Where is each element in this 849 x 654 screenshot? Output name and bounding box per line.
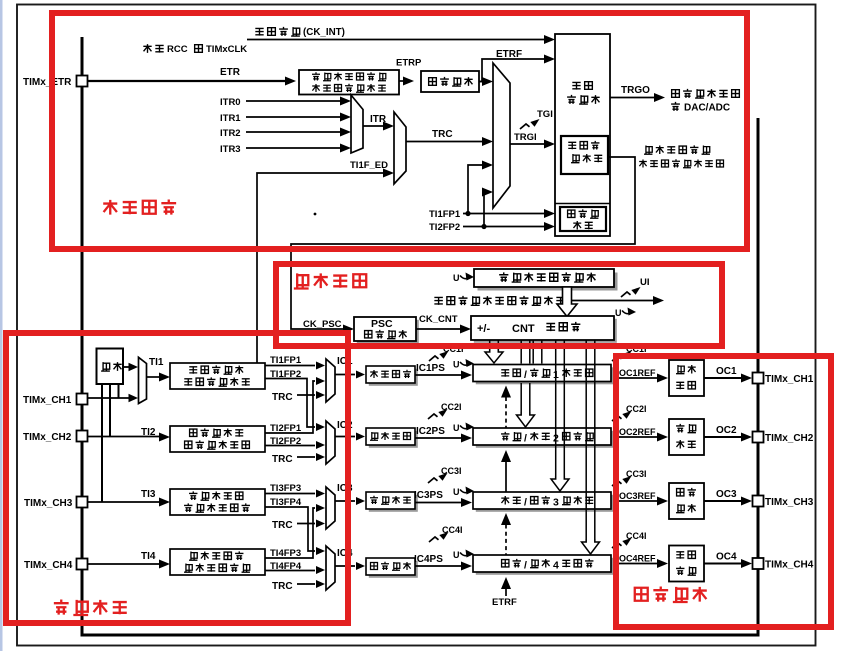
label to other timers / DAC ADC [672,90,680,98]
capture compare register 1 block [473,365,614,385]
TIMx_CH1 output pad [753,373,764,384]
IC3 multiplexer [326,487,335,529]
svg-text:TIMx_CH3: TIMx_CH3 [765,497,814,508]
counter to CCR4 hollow arrow [585,340,587,543]
svg-text:TRC: TRC [272,454,293,465]
svg-text:(CK_INT): (CK_INT) [303,27,345,38]
IC4 prescaler block [366,558,418,578]
svg-text:ITR1: ITR1 [220,113,241,124]
output control block 4 [669,546,704,582]
svg-text:RCC: RCC [167,44,188,55]
svg-text:TI1F_ED: TI1F_ED [350,160,388,171]
svg-text:TI1FP1: TI1FP1 [270,355,302,366]
red label time base unit [294,273,309,289]
TGI event symbol [520,124,530,129]
red box time base unit [276,264,722,346]
svg-text:ITR2: ITR2 [220,128,241,139]
TIMx_CH4 output pad [753,558,764,569]
capture compare register 4 block [473,555,614,575]
stray dot [314,213,317,216]
encoder interface block [560,207,606,231]
svg-text:ETRF: ETRF [492,597,517,608]
IC4 multiplexer [326,546,335,590]
svg-text:IC1PS: IC1PS [416,363,445,374]
svg-text:ITR0: ITR0 [220,97,241,108]
svg-text:TI1FP1: TI1FP1 [429,209,461,220]
svg-text:TI2FP2: TI2FP2 [429,222,460,233]
XOR block [97,349,124,385]
red label clock source [103,200,117,215]
svg-text:U: U [453,360,460,370]
output control block 3 [669,483,704,519]
auto-reload to counter hollow arrow [557,287,577,317]
CNT counter block [471,316,617,343]
svg-text:OC2REF: OC2REF [619,427,656,437]
svg-text:CK_PSC: CK_PSC [303,319,342,330]
update event arrow [571,300,654,302]
svg-text:TIMx_CH1: TIMx_CH1 [765,374,814,385]
wire TI4FP3 to IC3 mux [265,508,315,558]
polarity selection block [299,70,399,95]
svg-text:ETR: ETR [220,67,241,78]
wire TI2FP1 to IC1 mux [265,381,315,433]
svg-text:U: U [453,273,460,283]
svg-text:TI2FP1: TI2FP1 [270,423,302,434]
svg-text:IC2PS: IC2PS [416,426,445,437]
svg-text:TIMx_CH4: TIMx_CH4 [24,560,73,571]
CCR3 to CCR2 capture arrow [501,450,511,462]
svg-text:OC4REF: OC4REF [619,554,656,564]
left chip bus line [81,37,84,636]
counter to CCR3 hollow arrow [555,340,557,480]
svg-text:TIMx_CH2: TIMx_CH2 [765,433,814,444]
input filter edge detector 3 [170,489,265,515]
left margin strip [0,0,3,651]
counter write lines [532,340,534,364]
red box input capture [6,333,348,623]
svg-text:+/-: +/- [477,323,490,335]
svg-text:CK_CNT: CK_CNT [419,314,458,325]
svg-text:TRGO: TRGO [621,85,650,96]
svg-text:TRGI: TRGI [514,132,537,143]
svg-text:TIMx_CH2: TIMx_CH2 [23,432,72,443]
input filter block [421,71,479,92]
input filter edge detector 1 [170,363,265,389]
svg-text:U: U [453,550,460,560]
svg-text:OC1: OC1 [716,366,737,377]
right chip bus line [757,118,760,637]
svg-text:TRC: TRC [272,392,293,403]
TIMx_CH3 output pad [753,496,764,507]
svg-text:TRC: TRC [272,520,293,531]
svg-text:/: / [524,369,527,381]
svg-text:U: U [453,487,460,497]
wire ETRP [399,80,404,82]
IC2 prescaler block [366,428,418,448]
svg-text:ITR3: ITR3 [220,144,241,155]
svg-text:DAC/ADC: DAC/ADC [684,103,730,114]
svg-text:OC1REF: OC1REF [619,368,656,378]
ETRF to CCR4 arrow [501,577,511,589]
svg-text:IC3PS: IC3PS [414,490,443,501]
output control block 2 [669,419,704,455]
ITR multiplexer [351,95,363,153]
encoder interface divider [555,203,610,205]
svg-text:TIMxCLK: TIMxCLK [206,44,247,55]
internal clock CK_INT label [255,28,263,35]
svg-text:TI3: TI3 [141,489,156,500]
wire slave mode controller to prescaler clock [291,157,635,329]
wire ETRF to TRGI mux [481,81,484,83]
red label output compare [635,588,648,601]
svg-text:/: / [524,497,527,509]
svg-text:OC2: OC2 [716,425,737,436]
svg-text:TIMx_CH3: TIMx_CH3 [24,498,73,509]
svg-text:3: 3 [553,497,559,509]
svg-text:TIMx_CH4: TIMx_CH4 [765,560,814,571]
wire TI2FP2 riser to TRGI mux [483,192,484,227]
label stop clear up down [434,297,443,304]
label from RCC TIMxCLK [143,44,151,53]
svg-text:TGI: TGI [537,109,553,120]
counter to CCR2 hollow arrow [520,383,522,416]
XOR input stubs [118,384,120,398]
input filter edge detector 2 [170,426,265,452]
svg-text:CNT: CNT [512,323,535,335]
svg-text:TI4: TI4 [141,551,156,562]
capture compare register 3 block [473,492,614,512]
trigger controller block [555,34,610,236]
bottom chip bus line [81,634,759,637]
TI1 multiplexer [123,366,129,368]
svg-text:U: U [615,308,622,318]
CCR2 to CCR1 dashed capture arrow [501,386,511,398]
wire CK_INT [247,39,546,41]
svg-text:TRC: TRC [432,129,453,140]
CCR4 to CCR3 dashed capture arrow [501,513,511,525]
slave mode controller block [561,136,608,174]
label reset enable up down count [644,146,652,155]
red label input capture [54,599,69,614]
TIMx_CH2 output pad [753,432,764,443]
capture compare register 2 block [473,428,614,448]
red box output compare [616,356,831,627]
svg-text:/: / [524,433,527,445]
svg-text:OC3: OC3 [716,489,737,500]
svg-text:TIMx_ETR: TIMx_ETR [23,77,72,88]
svg-text:PSC: PSC [371,318,393,330]
PSC prescaler block [354,317,419,344]
svg-text:ETRP: ETRP [396,58,422,69]
input filter edge detector 4 [170,549,265,575]
svg-text:OC3REF: OC3REF [619,491,656,501]
output control block 1 [669,360,704,396]
svg-text:IC4PS: IC4PS [414,554,443,565]
svg-text:TI4FP3: TI4FP3 [270,548,301,559]
counter to CCR2 hollow arrow upper [520,340,522,364]
IC1 multiplexer [326,359,335,402]
IC3 prescaler block [366,492,418,512]
svg-text:U: U [453,423,460,433]
svg-text:/: / [524,560,527,572]
IC1 prescaler block [366,366,418,386]
IC2 multiplexer [326,421,335,464]
svg-text:4: 4 [553,560,559,572]
svg-text:UI: UI [640,277,650,288]
wire TI1FP1 riser to TRGI mux [468,165,483,214]
TRC multiplexer [394,112,406,184]
svg-text:TRC: TRC [272,581,293,592]
svg-text:OC4: OC4 [716,552,737,563]
TRGI multiplexer [493,63,510,208]
svg-text:TI3FP3: TI3FP3 [270,483,301,494]
red box clock source [52,13,747,249]
svg-text:TIMx_CH1: TIMx_CH1 [23,395,72,406]
counter to CCR1 hollow arrow [485,349,503,363]
svg-text:TI1: TI1 [149,357,164,368]
